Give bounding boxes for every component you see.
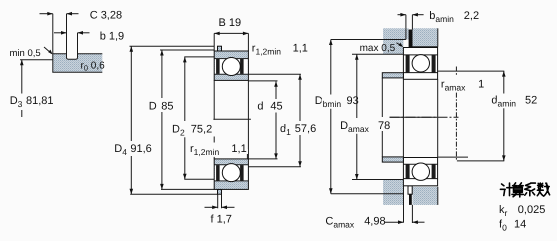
svg-text:b 1,9: b 1,9 xyxy=(100,30,124,42)
svg-text:min 0,5: min 0,5 xyxy=(10,48,41,59)
svg-text:85: 85 xyxy=(161,100,173,112)
svg-text:2,2: 2,2 xyxy=(464,10,479,22)
svg-text:91,6: 91,6 xyxy=(130,143,151,155)
svg-text:C 3,28: C 3,28 xyxy=(90,9,122,21)
svg-text:max 0,5: max 0,5 xyxy=(360,43,396,54)
svg-text:1,1: 1,1 xyxy=(293,42,308,54)
svg-text:d: d xyxy=(257,101,263,113)
svg-text:78: 78 xyxy=(378,120,390,132)
svg-text:14: 14 xyxy=(514,219,526,231)
svg-text:75,2: 75,2 xyxy=(191,123,212,135)
svg-text:1: 1 xyxy=(478,79,484,91)
svg-text:45: 45 xyxy=(270,101,282,113)
svg-text:B 19: B 19 xyxy=(219,17,242,29)
svg-text:52: 52 xyxy=(525,94,537,106)
svg-text:4,98: 4,98 xyxy=(364,216,385,228)
svg-text:D: D xyxy=(149,100,157,112)
svg-text:57,6: 57,6 xyxy=(295,123,316,135)
svg-text:f 1,7: f 1,7 xyxy=(211,213,232,225)
svg-text:81,81: 81,81 xyxy=(26,95,54,107)
svg-text:0,025: 0,025 xyxy=(518,204,546,216)
svg-text:1,1: 1,1 xyxy=(231,143,246,155)
